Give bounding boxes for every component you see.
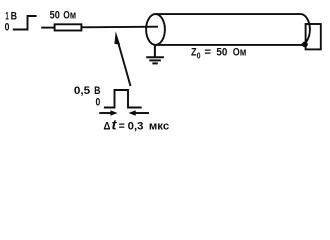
- value label "Δt = 0,3 мкс": [104, 118, 170, 133]
- wire: source to resistor: [41, 27, 54, 29]
- value label "Z0 = 50 Ом": [191, 46, 246, 60]
- svg-text:0: 0: [5, 22, 10, 34]
- coax cable top line: [156, 13, 301, 15]
- pulse waveform 0.5 V: [104, 90, 142, 108]
- svg-text:0,3: 0,3: [128, 121, 144, 133]
- svg-text:мкс: мкс: [149, 121, 169, 133]
- dimension arrow right (points left): [129, 110, 150, 115]
- svg-text:Ом: Ом: [233, 46, 247, 58]
- svg-text:50: 50: [50, 9, 60, 21]
- coax cable bottom line: [156, 44, 306, 46]
- wire: resistor to coax line: [81, 26, 158, 29]
- svg-text:Ом: Ом: [63, 9, 76, 21]
- source step waveform: [13, 16, 37, 30]
- svg-text:0: 0: [96, 96, 101, 108]
- svg-text:0,5: 0,5: [74, 85, 90, 97]
- coax cable left end (ellipse): [146, 14, 165, 45]
- svg-text:t: t: [112, 118, 119, 133]
- junction dot: [302, 42, 308, 48]
- svg-text:50: 50: [216, 46, 227, 58]
- dimension arrow left (points right): [99, 110, 117, 115]
- annotation arrow (pulse points to line): [114, 31, 130, 86]
- svg-text:В: В: [94, 85, 101, 97]
- svg-text:Δ: Δ: [104, 121, 111, 133]
- load resistor (termination): [306, 24, 321, 49]
- ground: [146, 45, 164, 63]
- svg-text:=: =: [119, 121, 126, 133]
- svg-text:В: В: [11, 11, 18, 23]
- svg-text:=: =: [204, 46, 211, 58]
- coax cable right end cap: [301, 14, 310, 45]
- resistor 50 Ом: [55, 24, 82, 30]
- svg-text:0: 0: [197, 51, 201, 60]
